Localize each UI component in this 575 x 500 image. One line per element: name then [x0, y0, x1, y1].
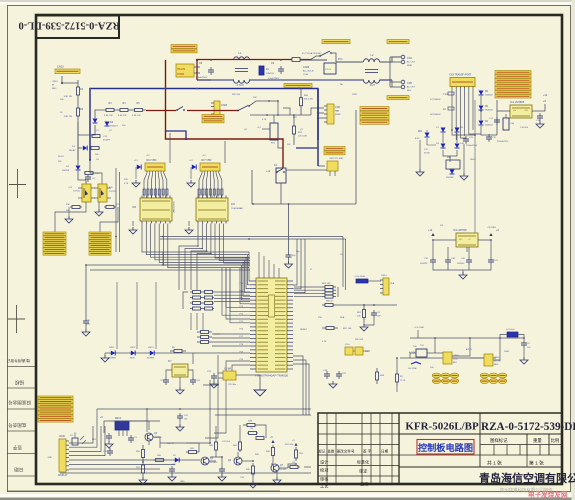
wire mcu right bus up	[293, 239, 297, 285]
wire K2 to CN22	[286, 169, 327, 171]
svg-text:100/25V: 100/25V	[457, 263, 465, 265]
svg-text:青岛海信空调有限公司: 青岛海信空调有限公司	[479, 471, 575, 485]
inductor L4	[507, 332, 518, 337]
capacitor C21	[490, 257, 492, 260]
capacitor C29	[373, 310, 375, 313]
svg-text:4.7K: 4.7K	[322, 341, 327, 343]
connector CN2 TRANSF	[176, 64, 194, 77]
resistor R45	[252, 463, 254, 466]
svg-text:CN6: CN6	[335, 106, 340, 109]
wire ic7	[166, 370, 172, 377]
wire ana more	[215, 452, 217, 457]
svg-text:10K: 10K	[253, 97, 257, 99]
wire psu collect	[452, 130, 475, 135]
wire navy left drop	[89, 89, 91, 161]
ground ic7	[176, 390, 184, 394]
margin field 旧底图总号	[8, 399, 31, 406]
svg-text:PLA: PLA	[390, 282, 395, 285]
resistor R5	[131, 109, 135, 111]
label CN10	[55, 69, 80, 74]
wire mcu left extra	[226, 268, 250, 308]
crystal X1	[223, 371, 236, 380]
capacitor C11	[465, 136, 467, 139]
svg-text:3.3K 1W: 3.3K 1W	[132, 115, 141, 117]
svg-text:AC OUT: AC OUT	[407, 61, 416, 64]
resistor R15b	[84, 172, 85, 174]
svg-text:TD62003AP: TD62003AP	[172, 201, 175, 213]
wire mcu left feeds	[249, 252, 250, 281]
svg-text:DISPLAY: DISPLAY	[58, 474, 68, 477]
svg-text:SDA: SDA	[340, 316, 345, 319]
svg-text:共 1 张: 共 1 张	[487, 459, 502, 466]
label FAN-CTRL stack	[360, 107, 389, 111]
svg-text:CN10: CN10	[57, 65, 64, 69]
wire q4 riser	[146, 409, 148, 432]
svg-text:GND: GND	[48, 457, 53, 459]
capacitor C22b	[179, 413, 181, 416]
resistor R47	[288, 466, 290, 468]
wire ana bus	[97, 408, 311, 410]
connector CN23 PG	[214, 101, 220, 116]
ground c36	[285, 264, 293, 268]
jumper row J1	[432, 373, 440, 378]
svg-text:2SC945: 2SC945	[279, 469, 287, 471]
ground c22b	[176, 427, 184, 431]
svg-text:LED1: LED1	[109, 347, 115, 349]
margin field 日期	[14, 466, 24, 472]
wire rnet down	[190, 313, 192, 330]
connector CN41 ROOM	[484, 354, 493, 366]
diode D1	[93, 119, 98, 124]
svg-text:10K: 10K	[60, 99, 64, 101]
wire d3 wire	[78, 147, 82, 149]
svg-text:RESET: RESET	[300, 329, 308, 331]
switch K2	[276, 168, 286, 183]
svg-text:100/25V: 100/25V	[420, 263, 428, 265]
connector CN4	[401, 55, 405, 59]
wire mcu to display	[160, 380, 210, 443]
diode D14 hdr	[192, 165, 196, 170]
svg-text:L4 10uH: L4 10uH	[506, 329, 515, 331]
ground psu2	[460, 176, 468, 180]
component T50	[416, 349, 427, 357]
svg-text:+5 L4 10UH: +5 L4 10UH	[354, 276, 366, 278]
svg-text:R9 1K: R9 1K	[58, 156, 64, 158]
margin field 签字	[12, 445, 22, 451]
svg-text:REC1: REC1	[115, 418, 122, 420]
wire q5 base	[186, 443, 199, 452]
svg-text:RZA-0-5172-539-DL-0: RZA-0-5172-539-DL-0	[481, 421, 575, 433]
svg-text:审定: 审定	[359, 467, 367, 474]
svg-text:R57 10K: R57 10K	[343, 328, 352, 330]
ground opto1	[65, 219, 73, 223]
svg-text:控制板电路图: 控制板电路图	[418, 442, 473, 453]
ground drv1	[129, 230, 137, 234]
wire test step	[277, 101, 279, 115]
wire mains maroon loop	[166, 60, 284, 168]
connector CN12 RELAY	[200, 163, 220, 171]
ground drv2	[185, 230, 193, 234]
svg-text:TRANS: TRANS	[177, 68, 186, 71]
label TRANSFORMER	[171, 45, 197, 49]
wire sens rail top	[410, 337, 524, 339]
wire top AC right	[300, 59, 327, 61]
svg-text:2200uF/25V: 2200uF/25V	[466, 145, 478, 147]
margin bottom line	[7, 490, 280, 492]
svg-text:+12: +12	[543, 94, 548, 97]
zener ZD1	[425, 133, 430, 138]
label net stack A	[43, 232, 66, 235]
svg-text:FORM: FORM	[177, 73, 184, 76]
svg-text:日期: 日期	[381, 449, 389, 454]
svg-text:A*12V: A*12V	[466, 348, 473, 351]
wire q4 net	[148, 441, 150, 445]
wire mid loop	[252, 203, 356, 205]
title name 控制板电路图 box	[417, 440, 474, 455]
resistor R40	[153, 459, 156, 461]
svg-text:CN23: CN23	[221, 104, 228, 107]
svg-text:3.3K 1W: 3.3K 1W	[104, 115, 113, 117]
wire led rail	[105, 352, 250, 354]
component D11 block	[446, 160, 460, 169]
svg-text:RELAY: RELAY	[69, 149, 76, 152]
resistor network R62-65	[190, 291, 193, 293]
resistor R43	[255, 437, 257, 439]
resistor R53b	[295, 447, 297, 450]
wire res row left	[95, 110, 103, 118]
svg-text:更改文件号: 更改文件号	[337, 449, 355, 454]
diode D6	[479, 91, 484, 96]
wire rnet2	[214, 333, 220, 335]
transistor Q6	[234, 457, 242, 465]
svg-text:RED: RED	[494, 364, 499, 366]
led LED2 RUN	[131, 351, 135, 356]
svg-text:IC8: IC8	[132, 206, 136, 209]
svg-text:10K 1/2W: 10K 1/2W	[298, 136, 307, 138]
optocoupler IC6	[98, 184, 107, 202]
svg-text:CN5: CN5	[407, 82, 412, 85]
capacitor C32	[171, 466, 173, 469]
node mains junction	[196, 59, 198, 61]
resistor R4	[117, 109, 120, 111]
wire CN10 stub	[62, 76, 78, 83]
wire R2 down	[77, 122, 79, 160]
connector CN11 RELAY	[145, 163, 165, 171]
connector CN22	[327, 161, 338, 171]
ic IC10 pair	[345, 347, 353, 355]
wire mcu down bundle	[293, 356, 303, 415]
svg-text:处数: 处数	[328, 449, 335, 454]
svg-text:标记: 标记	[319, 449, 326, 454]
capacitor C13	[539, 113, 541, 116]
wire reg gnd rail	[433, 265, 491, 270]
svg-text:CN22 PV KBD: CN22 PV KBD	[329, 158, 344, 160]
svg-text:重量: 重量	[533, 437, 542, 444]
title subgrid	[480, 444, 562, 446]
wire diode drop	[78, 125, 95, 135]
connector CN40 COIL	[443, 352, 452, 364]
wire mcu left mid	[214, 291, 250, 293]
svg-text:工艺: 工艺	[320, 483, 328, 488]
wire test y101	[249, 101, 278, 106]
svg-text:标准化: 标准化	[357, 458, 369, 464]
transistor Q5	[201, 457, 209, 465]
wire mains maroon drop	[196, 60, 198, 80]
resistor network R61	[322, 286, 325, 288]
margin cross 1	[9, 184, 26, 186]
capacitor C33	[109, 448, 111, 451]
wire relay fan 2	[199, 173, 202, 198]
margin field 描校	[14, 379, 24, 386]
resistor R62v	[363, 305, 365, 310]
diode D3 relay	[83, 146, 87, 151]
svg-text:R60 1K: R60 1K	[326, 301, 334, 303]
capacitor C16 big	[503, 118, 509, 130]
wire display fan	[69, 426, 93, 443]
resistor R16	[70, 206, 72, 208]
wire L1 bottom	[197, 79, 234, 81]
svg-text:R47 10K: R47 10K	[285, 444, 294, 446]
ground sens	[520, 360, 528, 364]
mcu pins	[250, 280, 256, 282]
switch K3	[237, 110, 239, 112]
svg-text:4.7K: 4.7K	[262, 119, 267, 121]
svg-text:RY1: RY1	[338, 58, 343, 61]
component S1	[72, 438, 78, 445]
svg-text:GND: GND	[180, 481, 185, 483]
resistor R50B	[142, 445, 144, 450]
wire navy drop 318	[317, 89, 319, 166]
ir receiver REC1	[115, 421, 129, 430]
svg-text:+5V REG: +5V REG	[487, 227, 496, 229]
wire navy bus mid	[90, 89, 318, 141]
capacitor C8	[210, 67, 212, 70]
capacitor C24	[192, 377, 194, 380]
svg-text:2SC1815: 2SC1815	[209, 462, 218, 464]
svg-text:比例: 比例	[551, 437, 560, 444]
margin field 借用件登记	[7, 359, 30, 364]
ground ana	[273, 480, 281, 484]
svg-text:审核: 审核	[320, 476, 329, 483]
title block grid	[318, 413, 562, 484]
svg-text:X1 8M: X1 8M	[224, 368, 231, 371]
capacitor C25	[213, 373, 215, 376]
svg-text:4700PF: 4700PF	[103, 140, 111, 142]
wire diode col	[480, 96, 482, 105]
resistor R14	[90, 147, 91, 149]
wire channel C17	[85, 265, 87, 318]
svg-text:RZA-0-5172-539-DL-0: RZA-0-5172-539-DL-0	[19, 20, 121, 31]
diode D2	[105, 122, 110, 127]
svg-text:8.2V: 8.2V	[415, 138, 420, 140]
wire drv1 bundle	[142, 224, 249, 253]
wire stair joints	[197, 245, 199, 247]
svg-text:GND1: GND1	[470, 159, 476, 161]
svg-text:0.4uF/250V: 0.4uF/250V	[196, 77, 208, 79]
svg-text:PJ2-S: PJ2-S	[325, 69, 331, 71]
diode D9	[441, 144, 446, 149]
resistor R2	[77, 102, 79, 108]
wire drv2 bundle	[179, 224, 198, 291]
resistor R59	[170, 350, 174, 352]
svg-text:LED: LED	[172, 464, 176, 466]
svg-text:C14 104: C14 104	[520, 127, 529, 129]
svg-text:KFR-5026L/BP: KFR-5026L/BP	[405, 421, 479, 433]
wire relay fan 1	[144, 173, 147, 198]
label AC-OUT bottom	[387, 96, 409, 100]
svg-text:LED2: LED2	[130, 347, 136, 349]
svg-text:1N4007: 1N4007	[110, 126, 118, 128]
wire channel lines	[162, 252, 164, 265]
wire display long	[69, 459, 200, 461]
svg-text:第 1 张: 第 1 张	[529, 459, 544, 466]
ground C17	[82, 332, 90, 336]
wire transf fan	[451, 89, 453, 131]
svg-text:1A: 1A	[443, 108, 446, 111]
margin field 底图总号	[8, 422, 27, 429]
title row line	[399, 433, 562, 435]
regulator IC4 7805	[456, 233, 478, 247]
ground c34	[249, 484, 257, 488]
capacitor C20	[468, 257, 470, 260]
ground mcu caps	[329, 384, 337, 388]
node top left	[61, 82, 63, 84]
wire test y115	[250, 114, 311, 116]
svg-text:3.3K 1W: 3.3K 1W	[118, 115, 127, 117]
svg-text:KEY: KEY	[92, 439, 97, 441]
svg-text:ZD1: ZD1	[418, 131, 423, 133]
svg-text:REC: REC	[52, 88, 57, 90]
junction dots	[196, 59, 198, 61]
svg-text:AC OUT: AC OUT	[407, 86, 416, 89]
svg-text:Y/G5: Y/G5	[303, 74, 309, 76]
doc number box	[36, 16, 119, 39]
svg-text:1N4148: 1N4148	[62, 170, 70, 172]
capacitor C30	[108, 433, 110, 436]
resistor R44	[239, 440, 241, 442]
wire reg rail	[433, 239, 456, 241]
wire rnet	[183, 292, 188, 309]
svg-text:+5V: +5V	[524, 110, 528, 112]
svg-text:描校: 描校	[14, 379, 24, 386]
svg-text:CN4: CN4	[407, 57, 412, 60]
maroon to switch	[187, 110, 238, 112]
regulator IC1 LM7805	[510, 105, 532, 118]
margin cross 2	[8, 318, 25, 320]
ground c29	[360, 327, 368, 331]
wire opto down	[55, 202, 86, 232]
svg-text:2200uF/25V: 2200uF/25V	[497, 141, 509, 143]
svg-text:4.7mH: 4.7mH	[236, 84, 243, 87]
resistor R58	[376, 368, 378, 372]
thermistor RT1	[270, 123, 278, 140]
wire long v219	[224, 141, 226, 163]
capacitor C17	[85, 318, 87, 321]
wire CN4 feed	[390, 56, 401, 58]
ground mcu	[254, 390, 266, 396]
svg-text:CN7 Y/BC: CN7 Y/BC	[201, 160, 212, 162]
svg-text:CN20: CN20	[303, 66, 310, 69]
svg-text:10K: 10K	[365, 351, 369, 353]
capacitor C22	[221, 466, 223, 469]
svg-text:图样标记: 图样标记	[490, 437, 508, 444]
svg-text:R20 10K: R20 10K	[232, 94, 241, 96]
capacitor C26	[326, 371, 328, 374]
capacitor C12	[496, 117, 498, 120]
led LED1 POWER	[111, 351, 115, 356]
svg-text:CN13: CN13	[381, 275, 387, 277]
wire psu link down	[474, 100, 476, 233]
resistor R51	[293, 115, 295, 126]
resistor R3	[103, 109, 106, 111]
inductor L1	[234, 57, 239, 60]
svg-text:75.7K: 75.7K	[400, 380, 406, 382]
diode D4 sig	[76, 166, 81, 171]
diode D7	[441, 128, 446, 133]
wire IC1 out	[532, 104, 545, 111]
connector CN6 FAN	[327, 104, 334, 124]
wire mcu top feeds	[258, 252, 260, 278]
capacitor C18	[447, 257, 449, 260]
resistor R49	[215, 440, 217, 442]
wire long v116	[115, 168, 117, 252]
svg-text:0.4uF/250V: 0.4uF/250V	[268, 78, 280, 80]
wire sens rail mid	[400, 357, 496, 359]
wire opto top	[78, 171, 86, 184]
wire navy right power	[380, 79, 393, 81]
resistor R57	[322, 327, 326, 329]
ground psu1	[416, 172, 424, 176]
svg-text:签 字: 签 字	[363, 449, 372, 454]
resistor R46	[272, 445, 274, 448]
svg-text:D8 1N4002: D8 1N4002	[430, 114, 441, 116]
wire zd1 link	[426, 130, 428, 132]
connector CN30 DISPLAY	[59, 439, 66, 472]
svg-text:SUPER: SUPER	[147, 358, 155, 360]
fuse F1	[292, 58, 300, 62]
capacitor C35	[411, 362, 421, 364]
svg-text:底图总号: 底图总号	[8, 422, 27, 429]
resistor R42	[247, 432, 249, 434]
ground led	[101, 358, 109, 362]
label AC-OUT top	[387, 40, 409, 44]
diode D5	[479, 106, 484, 111]
svg-text:RUN: RUN	[130, 358, 135, 360]
wire mains maroon top	[197, 59, 292, 61]
svg-text:7.1A: 7.1A	[443, 93, 448, 96]
inductor L2	[364, 59, 369, 62]
svg-text:WHD: WHD	[407, 65, 413, 67]
resistor R51B	[142, 462, 144, 465]
transistor Q4	[145, 433, 153, 441]
ground q4	[139, 480, 147, 484]
connector CN3 TRANSF-PORT	[450, 78, 475, 87]
wire sens links	[427, 352, 443, 354]
svg-text:C22 104: C22 104	[222, 441, 231, 443]
capacitor C9	[280, 66, 282, 69]
svg-text:3.9K 1W: 3.9K 1W	[64, 116, 73, 118]
svg-text:R39 1K: R39 1K	[167, 443, 175, 445]
diode D10	[455, 144, 460, 149]
svg-text:104 12NF: 104 12NF	[408, 368, 418, 370]
svg-text:1N4002: 1N4002	[485, 125, 493, 127]
svg-text:IC9: IC9	[231, 203, 235, 206]
svg-text:10N220: 10N220	[266, 73, 274, 75]
svg-text:1N4002: 1N4002	[485, 110, 493, 112]
wire channel bus	[160, 236, 343, 238]
svg-text:WHIP: WHIP	[335, 114, 341, 116]
connector CN5	[401, 80, 405, 84]
